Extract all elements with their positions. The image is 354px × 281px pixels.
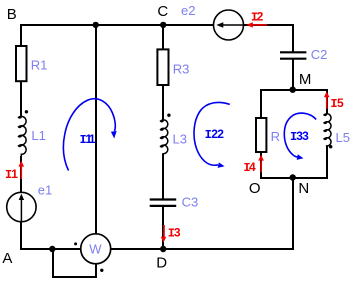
source e1 arrow <box>20 198 22 222</box>
wire M branch left down to R <box>260 89 262 118</box>
node A junction dot <box>49 246 55 252</box>
svg-text:A: A <box>2 250 12 267</box>
wire right loop bottom rail O-N <box>260 177 328 179</box>
inductor L3 polarity dot <box>167 114 170 117</box>
svg-text:e1: e1 <box>38 182 52 197</box>
current arrow I2 <box>246 22 267 27</box>
capacitor C2 <box>280 52 306 58</box>
svg-text:W: W <box>89 241 102 256</box>
wire L3 to C3 <box>162 154 164 200</box>
inductor L5 <box>324 113 331 147</box>
wattmeter polarity dot bottom <box>100 269 103 272</box>
resistor R3 <box>157 49 168 85</box>
svg-text:C2: C2 <box>311 47 328 62</box>
svg-text:R: R <box>271 129 280 144</box>
loop current arrow I22 <box>194 102 230 167</box>
svg-text:C3: C3 <box>182 195 199 210</box>
inductor L1 polarity dot <box>25 110 28 113</box>
wire left branch L1 to e1 to A <box>20 156 22 250</box>
svg-text:1: 1 <box>89 132 96 146</box>
loop current arrow I33 <box>284 113 316 160</box>
wire C3 to D <box>162 206 164 249</box>
svg-text:M: M <box>299 71 312 88</box>
node C junction dot <box>160 22 166 28</box>
node D junction dot <box>160 246 166 252</box>
inductor L3 <box>161 119 168 154</box>
node N junction dot <box>290 174 296 180</box>
wire top-right corner down to C2 <box>292 24 294 52</box>
svg-text:L5: L5 <box>336 130 350 145</box>
svg-text:L1: L1 <box>31 128 45 143</box>
node M junction dot <box>290 87 296 93</box>
current arrow I1 <box>19 161 25 179</box>
wattmeter W <box>81 234 111 264</box>
svg-text:4: 4 <box>249 160 256 174</box>
source e1 <box>7 192 36 221</box>
svg-text:1: 1 <box>11 167 18 181</box>
wattmeter polarity dot left <box>74 242 77 245</box>
svg-text:N: N <box>298 180 309 197</box>
svg-text:3: 3 <box>302 129 309 143</box>
wire R to O corner <box>260 153 262 180</box>
wire L5 to bottom-right corner <box>326 146 328 179</box>
svg-text:2: 2 <box>257 10 264 24</box>
current arrow I3 <box>161 225 167 243</box>
wire middle branch from top junction down to W <box>95 24 97 234</box>
resistor R <box>256 118 266 152</box>
current arrow I4 <box>258 155 264 173</box>
wire W voltage-coil loop <box>53 248 96 277</box>
svg-text:R1: R1 <box>31 57 48 72</box>
svg-text:e2: e2 <box>181 3 195 18</box>
wire left branch B down to R1 <box>20 24 22 117</box>
svg-text:3: 3 <box>174 225 181 239</box>
source e2 arrow <box>222 24 244 26</box>
capacitor C3 <box>150 200 177 206</box>
wire bottom rail A-W-D <box>20 248 294 250</box>
inductor L1 <box>19 116 27 158</box>
svg-text:D: D <box>156 254 167 271</box>
svg-text:L3: L3 <box>173 132 187 147</box>
inductor L5 polarity dot <box>329 145 332 148</box>
svg-text:O: O <box>249 180 261 197</box>
svg-text:C: C <box>157 3 168 20</box>
wire right loop top rail <box>260 89 328 91</box>
current arrow I5 <box>324 92 330 109</box>
svg-text:R3: R3 <box>173 61 190 76</box>
loop current arrow I11 <box>63 99 116 171</box>
svg-text:5: 5 <box>337 96 344 110</box>
source e2 <box>214 10 244 40</box>
resistor R1 <box>16 46 27 81</box>
svg-text:B: B <box>7 6 17 23</box>
svg-text:2: 2 <box>217 127 224 141</box>
wire B-C-e2 top rail <box>20 24 294 26</box>
junction dot top middle <box>93 22 99 28</box>
wire right loop right branch down to L5 <box>326 89 328 114</box>
wire C2 to M <box>292 59 294 90</box>
wire C down through R3 to L3 <box>162 24 164 121</box>
wire N down to bottom rail <box>292 177 294 250</box>
